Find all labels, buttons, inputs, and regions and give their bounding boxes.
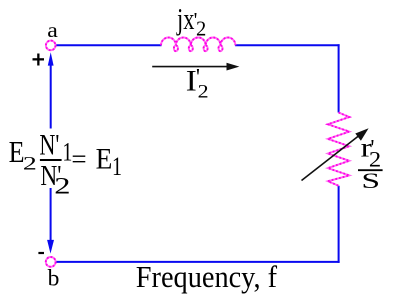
fraction denominator N'2 [40, 160, 70, 199]
svg-text:S: S [361, 170, 380, 194]
fraction bar of r'2/S [358, 169, 383, 171]
label r'2 (numerator) [361, 133, 382, 173]
fraction numerator N'1 [39, 128, 72, 167]
plus sign [33, 54, 45, 66]
label jx'2 [176, 1, 206, 40]
wire top-left segment [55, 44, 162, 46]
terminal b [46, 257, 56, 267]
inductor coil jx'2 [161, 37, 235, 51]
label E1 [96, 143, 122, 182]
terminal a [46, 41, 56, 51]
svg-text:jx: jx [176, 1, 195, 35]
wire bottom segment [55, 261, 340, 263]
wire right upper segment [338, 44, 340, 112]
resistor zigzag r'2/S [328, 113, 349, 186]
fraction bar [40, 159, 62, 161]
svg-text:Frequency, f: Frequency, f [136, 261, 277, 294]
voltage arrow down (toward b) [47, 188, 54, 254]
svg-text:b: b [48, 266, 60, 292]
svg-text:2: 2 [196, 19, 206, 41]
svg-text:N': N' [39, 128, 59, 161]
label I'2 [186, 64, 209, 102]
svg-text:E: E [96, 143, 113, 176]
svg-text:1: 1 [112, 152, 122, 181]
svg-text:2: 2 [54, 174, 70, 199]
svg-text:=: = [71, 144, 86, 174]
svg-text:2: 2 [23, 153, 37, 174]
variable resistor arrow [302, 128, 369, 180]
wire right lower segment [338, 186, 340, 263]
current arrow [152, 63, 239, 71]
wire top-right segment [235, 44, 340, 46]
label E2 (left of fraction) [9, 135, 37, 174]
svg-text:2: 2 [198, 82, 209, 102]
voltage arrow up (toward a) [48, 52, 54, 128]
minus sign [38, 252, 44, 254]
svg-text:a: a [47, 18, 58, 42]
svg-text:2: 2 [369, 148, 381, 172]
